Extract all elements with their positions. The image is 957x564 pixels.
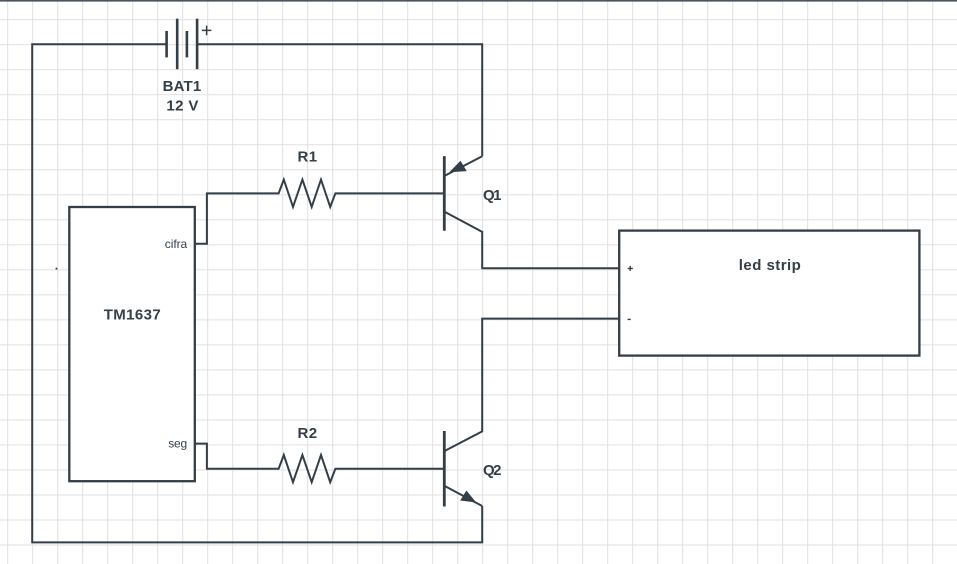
wire: led strip minus to Q2 collector — [445, 319, 619, 451]
Q2 emitter diagonal — [445, 486, 482, 506]
battery BAT1 plates — [165, 31, 168, 57]
Q1 emitter diagonal — [445, 156, 482, 175]
led strip plus terminal label — [628, 266, 633, 271]
svg-text:R2: R2 — [298, 425, 318, 442]
svg-text:cifra: cifra — [165, 237, 188, 251]
wire: outer loop left/bottom — [32, 44, 482, 542]
battery plus sign — [202, 26, 212, 36]
svg-text:seg: seg — [168, 436, 187, 450]
Q2 emitter arrow (NPN, points out) — [460, 491, 476, 503]
svg-text:Q2: Q2 — [483, 462, 502, 479]
wire: seg pin to R2 to Q2 base, with resistor R2 zigzag — [195, 444, 444, 483]
Q1 emitter arrow (PNP, points to base) — [449, 161, 466, 173]
transistor Q1 base bar — [443, 156, 446, 231]
svg-text:R1: R1 — [298, 149, 318, 166]
svg-text:TM1637: TM1637 — [104, 307, 161, 324]
led strip minus terminal label — [628, 318, 631, 320]
stray dot node — [56, 268, 58, 270]
svg-text:led strip: led strip — [739, 257, 801, 274]
svg-text:BAT1: BAT1 — [163, 78, 202, 95]
svg-text:Q1: Q1 — [483, 187, 502, 204]
Q1 collector diagonal + wire to led strip plus — [445, 212, 619, 268]
top canvas edge — [0, 0, 957, 2]
svg-text:12 V: 12 V — [166, 98, 198, 115]
wire: battery to Q1 emitter (top rail) — [197, 44, 482, 156]
TM1637 box — [69, 207, 195, 481]
transistor Q2 base bar — [443, 431, 446, 507]
led strip box — [619, 231, 919, 356]
wire: cifra pin to R1 to Q1 base, with resistor R1 zigzag — [195, 180, 444, 244]
